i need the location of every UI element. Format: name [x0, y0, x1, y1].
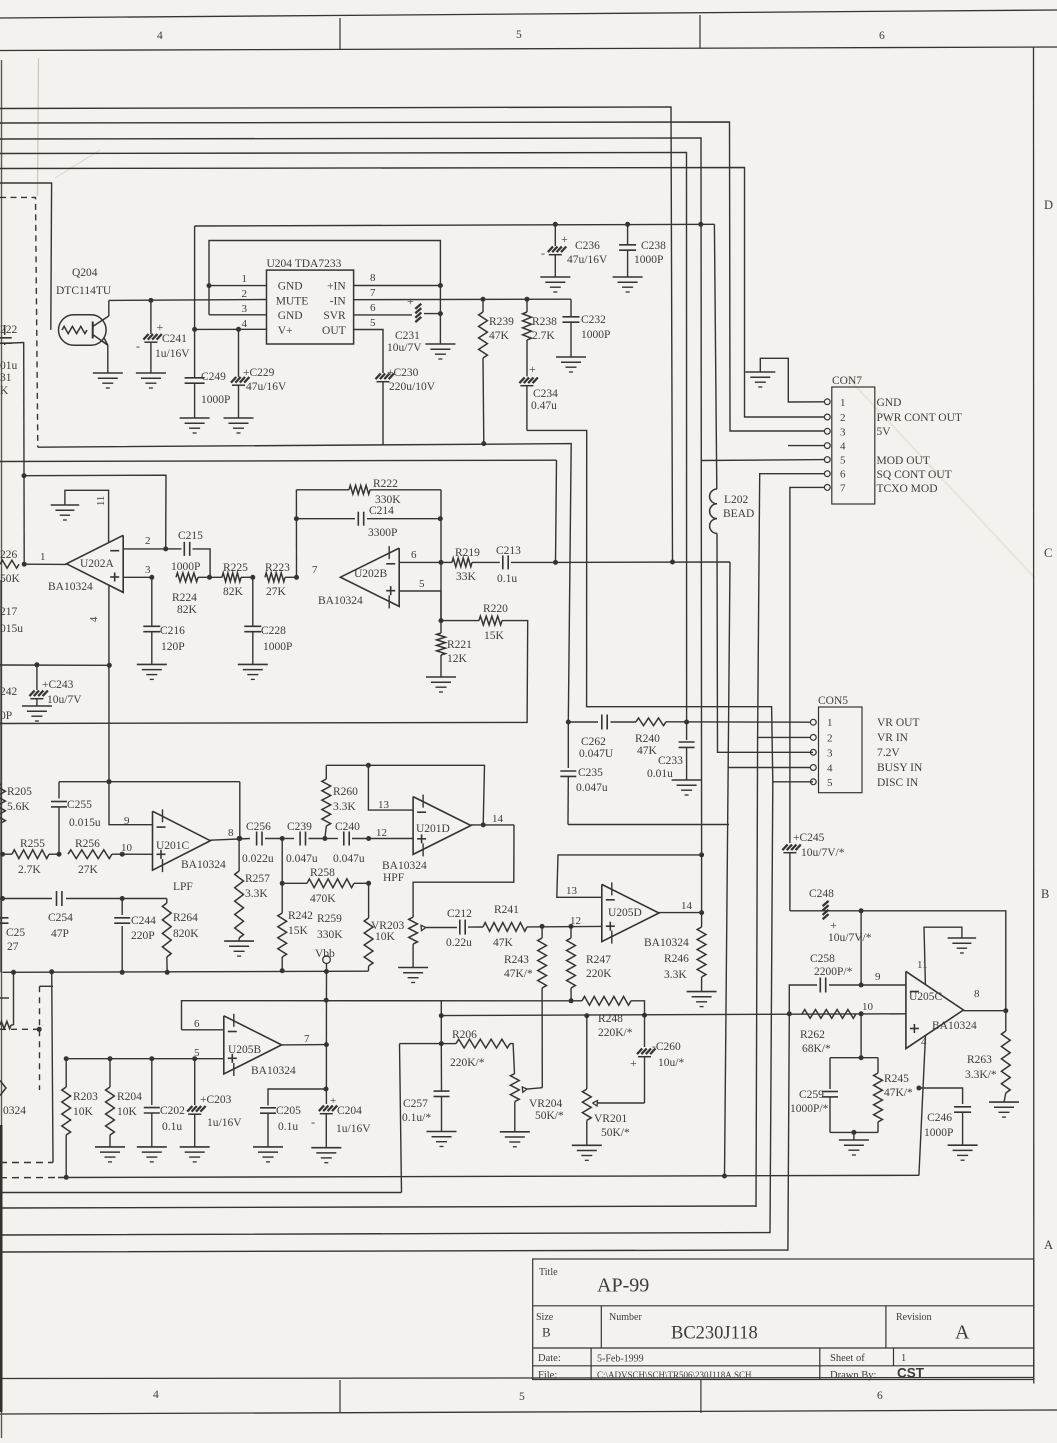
wire R206 branch down to loop L2 [400, 1044, 402, 1193]
svg-text:C204: C204 [337, 1105, 362, 1117]
svg-text:B: B [1041, 887, 1049, 901]
wire VR204 to ground [514, 1102, 516, 1132]
svg-text:BA10324: BA10324 [932, 1020, 977, 1032]
resistor fragment at left edge (U205A input) [0, 1021, 11, 1028]
ground Q204 emitter [93, 372, 123, 374]
svg-text:47K: 47K [637, 745, 658, 757]
svg-text:BA10324: BA10324 [318, 595, 363, 607]
svg-text:C259: C259 [799, 1089, 824, 1101]
resistor R220 [441, 620, 479, 622]
svg-text:C249: C249 [201, 371, 226, 383]
svg-text:+: + [330, 1095, 336, 1107]
wire VR203 to ground [412, 944, 414, 967]
svg-text:VR201: VR201 [594, 1113, 627, 1125]
capacitor C262 [601, 715, 603, 730]
svg-text:10: 10 [121, 842, 133, 854]
wire U205C pin11 to ground [924, 927, 962, 985]
resistor R245 [877, 1058, 879, 1073]
potentiometer VR204 [510, 1074, 519, 1102]
ground R221 [426, 676, 456, 678]
svg-text:Q204: Q204 [72, 267, 98, 279]
wire U205D pin13 feedback [557, 855, 702, 897]
svg-text:68K/*: 68K/* [802, 1043, 831, 1055]
node rail C238 [625, 222, 630, 227]
node Vbb jog to lower net [440, 1000, 442, 1015]
svg-text:9: 9 [124, 815, 130, 827]
capacitor C248 (series polarised) [823, 901, 829, 906]
svg-text:U205B: U205B [228, 1044, 262, 1056]
svg-text:C213: C213 [496, 545, 521, 557]
svg-text:R204: R204 [117, 1091, 142, 1103]
svg-text:50K/*: 50K/* [535, 1110, 564, 1122]
wire U202A minus pickup [24, 475, 166, 549]
svg-text:BA10324: BA10324 [251, 1065, 296, 1077]
svg-text:8: 8 [974, 988, 980, 1000]
wire BUSY column down [725, 562, 731, 1176]
svg-text:4: 4 [242, 318, 248, 330]
svg-text:+: + [630, 1056, 637, 1070]
wire U202B pin6 output [399, 561, 441, 563]
svg-text:1u/16V: 1u/16V [155, 348, 190, 360]
wire C248 node line [790, 911, 1006, 1011]
resistor R247 [570, 926, 572, 938]
svg-text:31: 31 [0, 372, 12, 384]
wire bus line 3 (supply branch) [0, 138, 702, 855]
svg-text:0324: 0324 [3, 1105, 26, 1117]
svg-text:120P: 120P [161, 641, 185, 653]
svg-text:0.1u: 0.1u [162, 1121, 182, 1133]
capacitor C245 [782, 845, 787, 851]
svg-text:6: 6 [877, 1390, 883, 1402]
svg-text:BC230J118: BC230J118 [671, 1324, 758, 1344]
svg-text:2.7K: 2.7K [532, 330, 555, 342]
op-amp U205D [602, 884, 659, 941]
svg-text:4: 4 [827, 763, 833, 775]
svg-text:3.3K/*: 3.3K/* [965, 1069, 997, 1081]
svg-text:C: C [1044, 546, 1052, 560]
svg-text:CON7: CON7 [832, 375, 862, 387]
ground C233 [672, 779, 702, 781]
svg-text:14: 14 [492, 813, 504, 825]
svg-text:1000P/*: 1000P/* [790, 1103, 829, 1115]
wire U205D pin12 node [540, 924, 545, 929]
capacitor C256 [256, 832, 258, 846]
svg-text:0P: 0P [0, 710, 12, 722]
svg-text:C241: C241 [162, 333, 187, 345]
ground C236 [540, 276, 570, 278]
capacitor C222 (cut at edge) [4, 325, 6, 335]
svg-text:R203: R203 [73, 1091, 98, 1103]
node R255 left [0, 852, 5, 857]
svg-text:+IN: +IN [327, 281, 346, 293]
svg-text:R256: R256 [75, 838, 100, 850]
svg-text:C262: C262 [581, 736, 606, 748]
capacitor C260 [644, 1015, 646, 1047]
svg-text:+C243: +C243 [42, 679, 74, 691]
wire collector node to U204 pin2 MUTE [109, 299, 267, 302]
svg-text:C232: C232 [581, 314, 606, 326]
svg-text:Title: Title [539, 1267, 558, 1278]
capacitor C241 [150, 300, 152, 334]
wire Q204 emitter to ground [107, 345, 109, 373]
node -IN R239 [481, 297, 486, 302]
resistor R204 [108, 1056, 113, 1061]
ground C241 [136, 372, 166, 374]
svg-text:6: 6 [370, 302, 376, 314]
svg-text:C205: C205 [276, 1105, 301, 1117]
wire V+ line [195, 328, 267, 330]
capacitor C212 [459, 920, 461, 935]
svg-text:+C230: +C230 [387, 367, 419, 379]
svg-text:10K: 10K [117, 1106, 138, 1118]
svg-text:5V: 5V [877, 426, 892, 438]
svg-text:C:\ADVSCH\SCH\TR506\230J118A.S: C:\ADVSCH\SCH\TR506\230J118A.SCH [597, 1370, 752, 1380]
svg-text:VR IN: VR IN [877, 732, 909, 744]
svg-text:U202A: U202A [80, 558, 115, 570]
ground C205 [253, 1146, 283, 1148]
wire rail down to L202 [714, 224, 716, 489]
wire R242 column [281, 839, 283, 884]
svg-text:R240: R240 [635, 733, 660, 745]
ground C216 [137, 663, 167, 665]
wire U205C pin8 output [963, 1010, 1005, 1012]
resistor R222 feedback [296, 489, 349, 491]
wire Q204 collector to node [108, 300, 110, 316]
resistor R205 (cut at edge) [0, 784, 5, 823]
svg-text:10u/7V/*: 10u/7V/* [801, 847, 845, 859]
svg-text:10u/7V: 10u/7V [387, 342, 422, 354]
svg-text:82K: 82K [223, 586, 244, 598]
svg-text:1: 1 [901, 1353, 906, 1364]
wire U202A output column [23, 342, 26, 564]
svg-text:0.1u: 0.1u [497, 573, 517, 585]
ground C204 [311, 1147, 341, 1149]
svg-text:7: 7 [370, 287, 376, 299]
svg-text:C235: C235 [578, 767, 603, 779]
svg-text:File:: File: [538, 1370, 557, 1381]
svg-text:VR OUT: VR OUT [877, 717, 920, 729]
node collector/C241 [148, 298, 153, 303]
ground U204 right loop [425, 343, 455, 345]
svg-text:C25: C25 [6, 927, 25, 939]
svg-text:R225: R225 [223, 562, 248, 574]
wire Q204 base from off-page [0, 183, 52, 330]
capacitor C259 [829, 1058, 831, 1089]
feedback right drop U201C [239, 782, 241, 839]
svg-text:217: 217 [0, 606, 18, 618]
svg-text:220K/*: 220K/* [450, 1057, 485, 1069]
svg-text:5: 5 [827, 777, 833, 789]
ground C229 [224, 417, 254, 419]
svg-text:R245: R245 [884, 1073, 909, 1085]
op-amp U201C [153, 811, 211, 870]
wire from Vbb rail at left [13, 972, 15, 1025]
svg-text:0.47u: 0.47u [531, 400, 557, 412]
svg-text:0.047u: 0.047u [333, 853, 365, 865]
resistor R225 [198, 576, 222, 578]
wire U204 gnd loop [209, 241, 440, 345]
capacitor C243 [36, 665, 38, 690]
capacitor C257 [434, 1090, 450, 1092]
svg-text:Date:: Date: [538, 1353, 561, 1364]
svg-text:1000P: 1000P [171, 561, 200, 573]
capacitor C255 [58, 782, 60, 799]
capacitor C254 line [3, 898, 53, 900]
svg-text:47K/*: 47K/* [884, 1087, 913, 1099]
wire long audio net left [0, 460, 557, 461]
svg-text:R259: R259 [317, 913, 342, 925]
svg-text:50K/*: 50K/* [601, 1127, 630, 1139]
svg-text:6: 6 [879, 30, 885, 42]
svg-text:L202: L202 [724, 494, 749, 506]
svg-text:SQ CONT OUT: SQ CONT OUT [877, 469, 952, 481]
capacitor C234 [526, 340, 528, 377]
svg-text:3: 3 [145, 564, 151, 576]
capacitor C228 [252, 577, 254, 625]
svg-text:-IN: -IN [330, 295, 347, 307]
ground R204 [95, 1146, 125, 1148]
svg-text:OUT: OUT [322, 325, 346, 337]
wire CON5 pin4 [728, 767, 810, 769]
svg-text:6: 6 [411, 549, 417, 561]
svg-text:27K: 27K [266, 586, 287, 598]
pin 6 U204 wire with C231 [354, 314, 412, 316]
svg-text:13: 13 [566, 885, 578, 897]
svg-text:HPF: HPF [383, 872, 404, 884]
wire U205D pin14 output [701, 855, 703, 913]
svg-text:GND: GND [278, 281, 303, 293]
inductor L202 BEAD [710, 489, 717, 504]
svg-text:11: 11 [917, 959, 928, 971]
wire Vbb loop left [52, 972, 53, 1163]
wire CON7 pin6 SQ CONT OUT down to CON5 pin2 and loop [756, 474, 824, 1207]
svg-text:DISC IN: DISC IN [877, 777, 919, 789]
svg-text:10u/*: 10u/* [658, 1057, 684, 1069]
resistor R226 (cut at edge) [0, 560, 19, 568]
svg-text:LPF: LPF [173, 881, 193, 893]
feedback loop R260 [326, 765, 484, 825]
svg-text:0.01u: 0.01u [647, 768, 673, 780]
svg-text:220K: 220K [586, 968, 612, 980]
title block [533, 1259, 1034, 1380]
svg-text:6: 6 [194, 1018, 200, 1030]
svg-text:10K: 10K [73, 1106, 94, 1118]
svg-text:-: - [541, 246, 545, 260]
node V+ / supply [192, 327, 197, 332]
connector CON5 [819, 707, 863, 793]
svg-text:R205: R205 [7, 786, 32, 798]
svg-text:15K: 15K [288, 925, 309, 937]
svg-text:BA10324: BA10324 [644, 937, 689, 949]
ground CON7 pin1 [745, 371, 775, 373]
pin 3 U204 [209, 314, 267, 316]
svg-text:R219: R219 [455, 547, 480, 559]
svg-text:U202B: U202B [354, 568, 388, 580]
capacitor C214 feedback [296, 518, 355, 520]
svg-text:2200P/*: 2200P/* [814, 966, 853, 978]
svg-text:47u/16V: 47u/16V [246, 381, 287, 393]
svg-text:MOD OUT: MOD OUT [877, 455, 930, 467]
feedback loop U201C [59, 781, 240, 783]
svg-text:0.047u: 0.047u [576, 782, 608, 794]
svg-text:0.047u: 0.047u [286, 853, 318, 865]
svg-text:R247: R247 [586, 954, 611, 966]
svg-text:7: 7 [840, 482, 846, 494]
svg-text:C231: C231 [395, 330, 420, 342]
svg-text:+: + [830, 918, 837, 932]
wire U202A pin1 [24, 563, 66, 565]
svg-text:-: - [311, 1115, 315, 1129]
ground U202A pin11 [51, 504, 79, 506]
resistor R256 [68, 850, 112, 859]
svg-text:2.7K: 2.7K [18, 864, 41, 876]
capacitor C249 [185, 377, 205, 379]
svg-text:14: 14 [681, 900, 693, 912]
svg-text:0.1u/*: 0.1u/* [402, 1112, 431, 1124]
svg-text:10u/7V/*: 10u/7V/* [828, 932, 872, 944]
resistor R255 [3, 853, 13, 855]
svg-text:1: 1 [242, 273, 248, 285]
ground C202 [137, 1146, 167, 1148]
svg-text:+: + [157, 320, 164, 334]
transistor Q204 [59, 315, 107, 345]
svg-text:R239: R239 [489, 316, 514, 328]
svg-text:Sheet of: Sheet of [830, 1353, 865, 1364]
op-amp U205C [906, 971, 964, 1048]
wire CON7 pin4 stub [788, 445, 824, 447]
node rail C236 [553, 222, 558, 227]
svg-text:Revision: Revision [896, 1312, 932, 1323]
svg-text:R243: R243 [504, 954, 529, 966]
wire bus line 1 (audio out to off-page) [0, 107, 673, 562]
wire CON5 pin1 VR node [568, 721, 598, 723]
wire U202A pin4 down to U201C pin9 [109, 585, 153, 825]
wire C213 node to BUSY column [556, 561, 731, 563]
wire loop L4 [0, 782, 773, 1235]
svg-text:4: 4 [89, 616, 100, 622]
svg-text:SVR: SVR [323, 310, 346, 322]
svg-text:13: 13 [378, 799, 390, 811]
svg-text:47K: 47K [489, 330, 510, 342]
svg-text:1000P: 1000P [634, 254, 663, 266]
resistor R260 [325, 765, 327, 779]
wire VR-OUT net entry (dashed) [0, 197, 38, 447]
capacitor C216 [151, 577, 153, 625]
svg-text:820K: 820K [173, 928, 199, 940]
capacitor C202 [149, 1056, 154, 1061]
svg-text:BA10324: BA10324 [48, 581, 93, 593]
svg-text:330K: 330K [317, 929, 343, 941]
wire U201D pin13 [368, 765, 413, 810]
svg-text:R246: R246 [664, 953, 689, 965]
svg-text:10K: 10K [375, 931, 396, 943]
svg-text:220K/*: 220K/* [598, 1027, 633, 1039]
resistor R239 [482, 299, 484, 312]
wire loop L3 [0, 1206, 756, 1208]
svg-text:3: 3 [840, 426, 846, 438]
svg-text:C228: C228 [261, 625, 286, 637]
pin 7 U204 wire to feedback node [354, 298, 571, 301]
ground R245/C259 [839, 1139, 869, 1141]
svg-text:3.3K: 3.3K [245, 888, 268, 900]
svg-text:Size: Size [536, 1312, 554, 1323]
resistor R203 [65, 1059, 67, 1087]
node V+ / C229 [236, 327, 241, 332]
svg-text:C239: C239 [287, 821, 312, 833]
svg-text:01u: 01u [0, 360, 18, 372]
supply rail top [195, 224, 715, 226]
svg-text:3300P: 3300P [368, 527, 397, 539]
wire U201D pin14 output loop [471, 824, 514, 826]
connector CON7 [832, 387, 875, 504]
ground R246 [687, 991, 717, 993]
wire stub at left edge [0, 997, 9, 999]
svg-text:Drawn By:: Drawn By: [830, 1370, 876, 1381]
svg-text:MUTE: MUTE [276, 295, 309, 307]
svg-text:R224: R224 [172, 592, 197, 604]
svg-text:1: 1 [827, 717, 833, 729]
capacitor C239 [282, 838, 294, 840]
svg-text:220P: 220P [131, 930, 155, 942]
svg-text:C233: C233 [658, 755, 683, 767]
svg-text:47K/*: 47K/* [504, 968, 533, 980]
sheet border frame [0, 10, 1057, 18]
resistor R246 [701, 913, 703, 927]
svg-text:V+: V+ [278, 325, 293, 337]
svg-text:R242: R242 [288, 910, 313, 922]
resistor R248 [582, 996, 631, 1005]
svg-text:0.1u: 0.1u [278, 1121, 298, 1133]
svg-text:82K: 82K [177, 604, 198, 616]
svg-text:C255: C255 [67, 799, 92, 811]
wire Vref rail [0, 664, 109, 666]
op-amp U202A [67, 535, 124, 592]
svg-text:K: K [0, 385, 9, 397]
svg-text:A: A [955, 1322, 970, 1344]
resistor R206 [439, 1041, 444, 1046]
ground VR204 [500, 1131, 530, 1133]
svg-text:2: 2 [242, 288, 248, 300]
svg-text:Vbb: Vbb [315, 948, 335, 960]
svg-text:7: 7 [312, 564, 318, 576]
svg-text:C216: C216 [160, 625, 185, 637]
svg-text:C212: C212 [447, 908, 472, 920]
wire U205C pin9 [789, 985, 817, 1014]
wire lower signal net [441, 1014, 906, 1016]
resistor R223 [265, 573, 285, 582]
svg-text:+: + [407, 294, 414, 308]
node R258 left [280, 881, 285, 886]
svg-text:R241: R241 [494, 904, 519, 916]
wire C248 node to pin9 [860, 911, 862, 985]
op-amp U201D [413, 797, 471, 855]
ground R257 [224, 940, 254, 942]
op-amp U205B [224, 1016, 282, 1074]
wire loop L1 (BUSY net bottom) [58, 1175, 919, 1177]
svg-text:470K: 470K [310, 893, 336, 905]
capacitor C240 [325, 838, 338, 840]
capacitor C236 [554, 224, 556, 246]
svg-text:5: 5 [519, 1391, 525, 1403]
svg-text:226: 226 [0, 549, 18, 561]
resistor R262 [802, 1010, 856, 1019]
svg-text:5: 5 [370, 317, 376, 329]
pin 11 U202A to ground [65, 490, 109, 542]
svg-text:-: - [136, 339, 140, 353]
capacitor C2.. (cut at edge) [0, 917, 9, 919]
svg-text:2: 2 [145, 535, 151, 547]
svg-text:C254: C254 [48, 912, 73, 924]
